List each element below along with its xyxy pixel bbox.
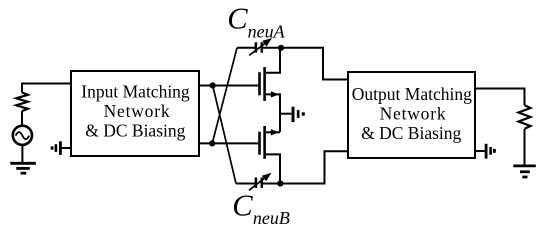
junction node drain M1 xyxy=(278,45,284,51)
cross wire node B to CneuA xyxy=(212,48,237,144)
output matching network box xyxy=(348,72,475,158)
label CneuB xyxy=(232,188,290,228)
svg-text:C: C xyxy=(227,1,248,35)
wire load resistor to ground xyxy=(524,129,526,165)
wire top rail to output box xyxy=(281,48,348,80)
wire output box to load xyxy=(475,89,525,106)
svg-text:neuA: neuA xyxy=(248,21,286,41)
resistor RL xyxy=(519,105,531,129)
ground (source) xyxy=(10,163,36,173)
svg-text:& DC Biasing: & DC Biasing xyxy=(85,121,185,141)
wire source to ground xyxy=(21,145,23,163)
svg-text:Input Matching: Input Matching xyxy=(81,81,190,101)
ground (input box, sideways) xyxy=(52,141,71,155)
svg-text:neuB: neuB xyxy=(253,208,290,228)
AC source VS xyxy=(13,126,32,145)
label input matching network xyxy=(81,81,190,140)
ground (load) xyxy=(513,166,536,177)
junction node drain M2 xyxy=(277,180,283,186)
label output matching network xyxy=(352,84,472,143)
label CneuA xyxy=(227,1,285,41)
capacitor CneuB xyxy=(236,173,280,191)
svg-text:& DC Biasing: & DC Biasing xyxy=(361,123,461,143)
svg-text:Network: Network xyxy=(380,103,447,123)
ground (common sources, sideways) xyxy=(280,107,303,122)
junction node A (top output) xyxy=(210,82,216,88)
junction node B (bottom output) xyxy=(209,140,215,146)
wire bottom rail to output box xyxy=(280,151,348,183)
wire source to input box xyxy=(22,84,71,93)
svg-text:Network: Network xyxy=(104,101,171,121)
wire resistor to source xyxy=(21,111,23,126)
svg-text:C: C xyxy=(232,188,253,222)
capacitor CneuA xyxy=(237,38,281,55)
wire input box to M1 gate xyxy=(199,85,258,87)
transistor M2 xyxy=(260,126,281,184)
resistor RS xyxy=(16,93,28,112)
cross wire node A to CneuB xyxy=(213,86,236,184)
input matching network box xyxy=(71,71,199,156)
transistor M1 xyxy=(260,48,281,133)
wire input box to M2 gate xyxy=(199,142,258,144)
ground (output box, sideways) xyxy=(475,144,494,159)
svg-text:Output Matching: Output Matching xyxy=(352,84,472,104)
